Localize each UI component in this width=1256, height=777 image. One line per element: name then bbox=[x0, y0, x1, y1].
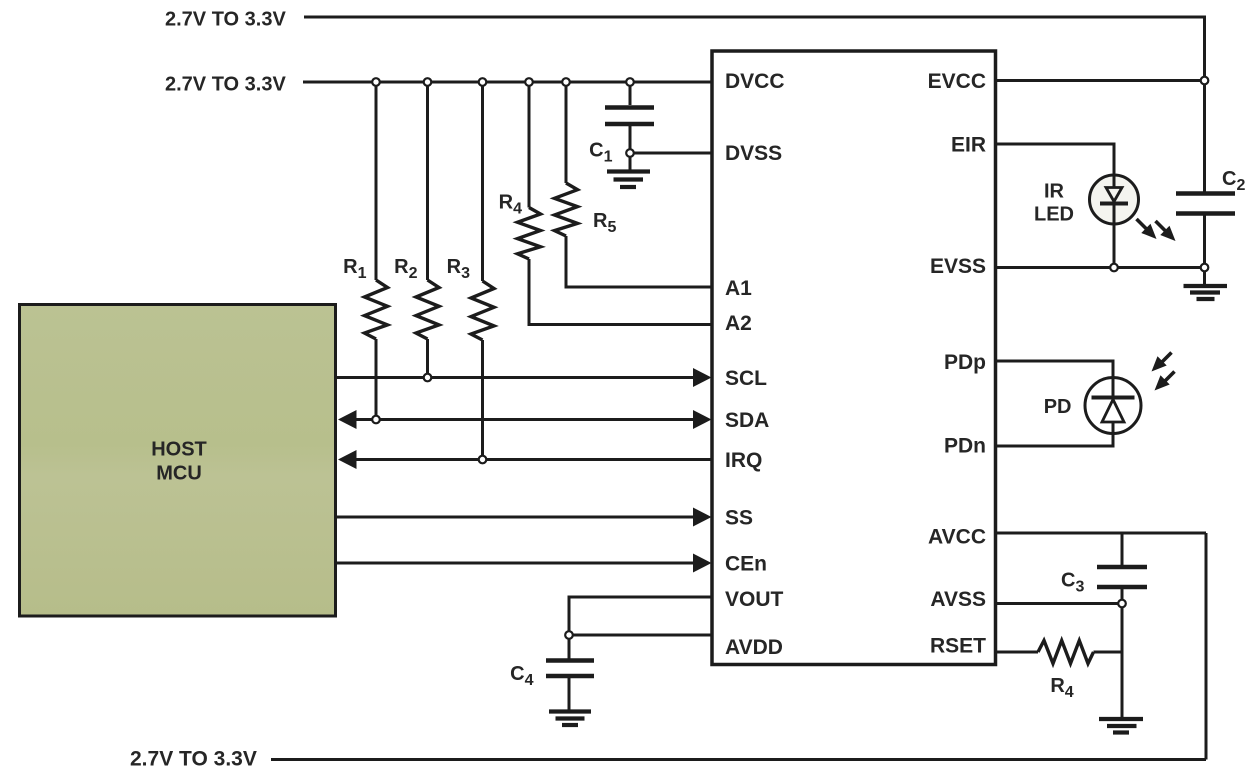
wire C2 ground stub bbox=[1203, 268, 1206, 285]
arrowhead SCL into IC bbox=[693, 368, 712, 387]
junction rail R3 bbox=[479, 78, 487, 86]
wire SS bbox=[336, 516, 694, 519]
svg-text:EVCC: EVCC bbox=[928, 70, 986, 93]
junction EVCC top rail bbox=[1201, 77, 1209, 85]
wire right vertical to bottom rail bbox=[1205, 533, 1208, 760]
svg-text:IRQ: IRQ bbox=[725, 449, 762, 472]
junction rail R5 bbox=[562, 78, 570, 86]
junction rail R2 bbox=[424, 78, 432, 86]
wire SDA bbox=[355, 418, 694, 421]
svg-text:LED: LED bbox=[1034, 204, 1074, 226]
wire DVSS bbox=[630, 152, 712, 155]
junction SDA R1 bbox=[372, 416, 380, 424]
wire EVSS bbox=[996, 266, 1205, 269]
wire SCL bbox=[336, 376, 694, 379]
PD incoming arrow 1 bbox=[1152, 353, 1172, 372]
IC U1 body bbox=[712, 51, 996, 665]
arrowhead SDA into MCU bbox=[338, 410, 357, 429]
wire RSET to resistor bbox=[996, 651, 1039, 654]
resistor R3 bbox=[471, 281, 494, 340]
svg-text:2.7V TO 3.3V: 2.7V TO 3.3V bbox=[165, 9, 286, 31]
capacitor C4 bbox=[546, 661, 594, 677]
wire C2 branch (EVCC junction down to cap) bbox=[1203, 81, 1206, 192]
junction EVSS C2 bbox=[1201, 264, 1209, 272]
wire CEn bbox=[336, 562, 694, 565]
resistor R5 bbox=[555, 183, 578, 236]
svg-text:MCU: MCU bbox=[156, 463, 202, 485]
junction rail R1 bbox=[372, 78, 380, 86]
photodiode PD bbox=[1085, 378, 1141, 434]
svg-text:IR: IR bbox=[1044, 181, 1065, 203]
wire C1 bottom to DVSS junction bbox=[629, 126, 632, 153]
ground (C2) bbox=[1184, 286, 1228, 299]
svg-text:PDn: PDn bbox=[944, 435, 986, 458]
wire EIR to IR LED bbox=[996, 144, 1115, 176]
svg-text:VOUT: VOUT bbox=[725, 588, 784, 611]
label IR LED bbox=[1034, 181, 1074, 226]
junction DVSS C1 bbox=[626, 149, 634, 157]
wire R1 pull-up (rail to zigzag, zigzag to SDA) bbox=[375, 82, 378, 420]
ground (C4) bbox=[549, 712, 591, 726]
junction IRQ R3 bbox=[479, 456, 487, 464]
wire resistor to C3 branch bbox=[1094, 651, 1123, 654]
wire C1 top stub from rail bbox=[629, 82, 632, 105]
capacitor C1 bbox=[605, 108, 654, 125]
wire R5 pull-up (rail to zigzag, zigzag to A1) bbox=[566, 82, 712, 287]
resistor R4 bbox=[518, 208, 541, 260]
ground (C3/RSET) bbox=[1099, 719, 1143, 733]
svg-text:A1: A1 bbox=[725, 277, 752, 300]
wire PDp to photodiode bbox=[996, 361, 1114, 378]
svg-text:AVDD: AVDD bbox=[725, 636, 783, 659]
svg-text:DVCC: DVCC bbox=[725, 70, 785, 93]
wire AVSS bbox=[996, 602, 1123, 605]
wire VOUT bbox=[569, 597, 712, 635]
svg-text:A2: A2 bbox=[725, 312, 752, 335]
svg-text:RSET: RSET bbox=[930, 635, 986, 658]
wire C3 top stub bbox=[1121, 533, 1124, 565]
junction AVSS C3 bbox=[1118, 600, 1126, 608]
svg-text:EVSS: EVSS bbox=[930, 255, 986, 278]
wire bottom rail bbox=[271, 758, 1206, 761]
resistor R4 (RSET) bbox=[1038, 641, 1094, 664]
wire R3 pull-up (rail to zigzag, zigzag to IRQ) bbox=[481, 82, 484, 460]
junction SCL R2 bbox=[424, 374, 432, 382]
wire C3 bottom to AVSS junction and ground bbox=[1121, 589, 1124, 717]
host MCU block bbox=[20, 305, 336, 617]
svg-text:HOST: HOST bbox=[151, 439, 207, 461]
svg-text:EIR: EIR bbox=[951, 134, 986, 157]
wire C2 bottom to EVSS junction bbox=[1203, 216, 1206, 268]
wire IR LED bottom to EVSS bbox=[1113, 224, 1116, 268]
svg-text:SCL: SCL bbox=[725, 367, 767, 390]
svg-text:CEn: CEn bbox=[725, 553, 767, 576]
wire AVCC to right branch bbox=[996, 532, 1207, 535]
arrowhead IRQ into MCU bbox=[338, 450, 357, 469]
capacitor C2 bbox=[1176, 194, 1235, 214]
wire R4 pull-up (rail to zigzag, zigzag to A2) bbox=[529, 82, 712, 325]
svg-text:AVCC: AVCC bbox=[928, 526, 986, 549]
svg-text:2.7V TO 3.3V: 2.7V TO 3.3V bbox=[165, 74, 286, 96]
PD incoming arrow 2 bbox=[1155, 372, 1175, 391]
arrowhead SS into IC bbox=[693, 508, 712, 527]
arrowhead CEn into IC bbox=[693, 554, 712, 573]
wire C4 ground stub bbox=[568, 678, 571, 710]
wire photodiode bottom to PDn bbox=[996, 433, 1114, 446]
arrowhead SDA into IC bbox=[693, 410, 712, 429]
wire C4 branch (VOUT corner through AVDD junction) bbox=[568, 597, 571, 659]
junction AVDD C4 bbox=[565, 631, 573, 639]
svg-text:2.7V TO 3.3V: 2.7V TO 3.3V bbox=[130, 748, 257, 771]
wire mid rail to DVCC bbox=[303, 81, 712, 84]
resistor R2 bbox=[416, 280, 439, 339]
svg-text:PD: PD bbox=[1044, 396, 1072, 418]
wire C1 ground stub bbox=[629, 153, 632, 171]
LED emission arrow 2 bbox=[1156, 221, 1176, 241]
svg-text:AVSS: AVSS bbox=[930, 588, 986, 611]
capacitor C3 bbox=[1097, 567, 1147, 587]
svg-text:DVSS: DVSS bbox=[725, 142, 782, 165]
LED emission arrow 1 bbox=[1137, 219, 1157, 239]
resistor R1 bbox=[365, 280, 388, 339]
svg-text:SDA: SDA bbox=[725, 409, 769, 432]
junction rail R4 bbox=[525, 78, 533, 86]
wire IRQ bbox=[355, 458, 712, 461]
junction rail C1 bbox=[626, 78, 634, 86]
svg-text:PDp: PDp bbox=[944, 351, 986, 374]
wire EVCC bbox=[996, 79, 1205, 82]
wire AVDD bbox=[569, 634, 712, 637]
wire R2 pull-up (rail to zigzag, zigzag to SCL) bbox=[426, 82, 429, 378]
IR LED D1 bbox=[1090, 175, 1139, 224]
svg-text:SS: SS bbox=[725, 507, 753, 530]
wire top rail to EVCC branch bbox=[304, 17, 1205, 81]
junction EVSS LED bbox=[1110, 264, 1118, 272]
ground (C1) bbox=[607, 172, 650, 188]
